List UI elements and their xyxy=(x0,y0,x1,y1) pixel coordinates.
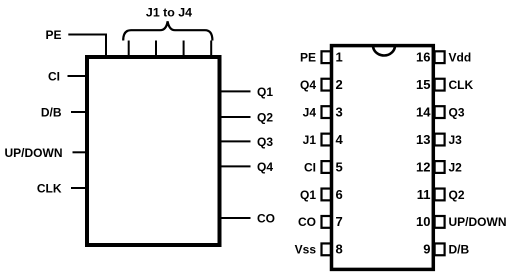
svg-text:PE: PE xyxy=(300,51,316,65)
pin 11 pad xyxy=(435,189,445,201)
wire CLK xyxy=(71,187,87,189)
pin-1 notch xyxy=(373,46,395,56)
svg-text:Vss: Vss xyxy=(295,243,317,257)
wire Q2 xyxy=(220,116,251,118)
pin 2 pad xyxy=(322,79,332,91)
svg-text:Q2: Q2 xyxy=(449,188,465,202)
svg-text:D/B: D/B xyxy=(449,243,470,257)
svg-text:J2: J2 xyxy=(449,160,463,174)
svg-text:15: 15 xyxy=(416,77,430,92)
svg-text:10: 10 xyxy=(416,214,430,229)
pin 4 pad xyxy=(322,134,332,146)
svg-text:13: 13 xyxy=(416,132,430,147)
wire CO xyxy=(220,217,251,219)
svg-text:5: 5 xyxy=(336,159,343,174)
svg-text:CO: CO xyxy=(298,215,316,229)
pin 16 pad xyxy=(435,51,445,63)
pin 3 pad xyxy=(322,106,332,118)
svg-text:Q1: Q1 xyxy=(257,85,273,99)
pin 5 pad xyxy=(322,161,332,173)
svg-text:J1 to J4: J1 to J4 xyxy=(146,6,192,20)
svg-text:Q1: Q1 xyxy=(300,188,316,202)
wire D/B xyxy=(71,111,87,113)
wire CI xyxy=(68,75,88,77)
svg-text:J1: J1 xyxy=(303,133,317,147)
svg-text:Q4: Q4 xyxy=(300,78,316,92)
wire Q1 xyxy=(220,90,251,92)
svg-text:PE: PE xyxy=(45,28,61,42)
wire Q3 xyxy=(220,140,251,142)
pin 10 pad xyxy=(435,216,445,228)
svg-text:16: 16 xyxy=(416,50,430,65)
svg-text:Q3: Q3 xyxy=(449,105,465,119)
svg-text:CLK: CLK xyxy=(37,182,62,196)
svg-text:D/B: D/B xyxy=(41,106,62,120)
svg-text:Q3: Q3 xyxy=(257,135,273,149)
svg-text:2: 2 xyxy=(336,77,343,92)
brace over J inputs xyxy=(123,21,212,40)
wire J1 stub xyxy=(128,41,130,58)
wire J2 stub xyxy=(155,41,157,58)
wire J3 stub xyxy=(183,41,185,58)
svg-text:J4: J4 xyxy=(303,105,317,119)
pin 6 pad xyxy=(322,189,332,201)
pin 12 pad xyxy=(435,161,445,173)
wire UP/DOWN xyxy=(73,151,88,153)
pin 8 pad xyxy=(322,243,332,255)
svg-text:6: 6 xyxy=(336,187,343,202)
svg-text:CLK: CLK xyxy=(449,78,474,92)
wire Q4 xyxy=(220,165,251,167)
pin 15 pad xyxy=(435,79,445,91)
pin 14 pad xyxy=(435,106,445,118)
svg-text:14: 14 xyxy=(416,104,431,119)
wire J4 stub xyxy=(210,41,212,58)
svg-text:UP/DOWN: UP/DOWN xyxy=(5,146,63,160)
pin 9 pad xyxy=(435,243,445,255)
svg-text:Q4: Q4 xyxy=(257,160,273,174)
svg-text:CO: CO xyxy=(257,212,275,226)
wire PE xyxy=(68,35,106,58)
svg-text:CI: CI xyxy=(304,160,316,174)
pin 13 pad xyxy=(435,134,445,146)
svg-text:8: 8 xyxy=(336,242,343,257)
svg-text:UP/DOWN: UP/DOWN xyxy=(449,215,507,229)
svg-text:Q2: Q2 xyxy=(257,111,273,125)
pin 7 pad xyxy=(322,216,332,228)
DIP-16 package body xyxy=(332,46,434,270)
svg-text:4: 4 xyxy=(336,132,344,147)
svg-text:7: 7 xyxy=(336,214,343,229)
svg-text:12: 12 xyxy=(416,159,430,174)
logic-symbol box U1 xyxy=(87,57,220,245)
svg-text:9: 9 xyxy=(423,242,430,257)
svg-text:J3: J3 xyxy=(449,133,463,147)
svg-text:Vdd: Vdd xyxy=(449,51,472,65)
svg-text:1: 1 xyxy=(336,50,343,65)
svg-text:3: 3 xyxy=(336,104,343,119)
svg-text:CI: CI xyxy=(48,70,60,84)
svg-text:11: 11 xyxy=(417,187,431,202)
pin 1 pad xyxy=(322,51,332,63)
